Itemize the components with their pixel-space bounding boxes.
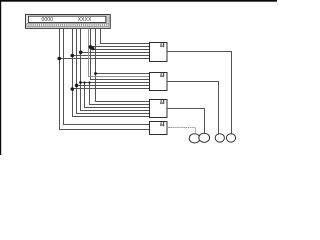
wire G1 pin5 horizontal — [73, 55, 150, 57]
wire s3: tap on G2p4 line down to G3 pin3 — [85, 83, 150, 108]
svg-text:XXXX: XXXX — [78, 17, 92, 23]
junction m7 / G1 pin2 — [89, 45, 93, 49]
wire G1 pin6 horizontal — [60, 58, 150, 60]
wire m7: generator, taps G1p2, ends at G2 pin3 — [91, 29, 150, 80]
wire G2 pin5 horizontal — [77, 85, 150, 87]
wire m9: generator to G1 pin1 — [101, 29, 150, 44]
junction m5 / G2 pin4 — [79, 81, 82, 84]
wire G2 pin6 horizontal — [73, 88, 150, 90]
indicator lamp X1 — [189, 134, 200, 143]
wire s2: tap on G2p4 line down to G3 pin2 — [90, 83, 150, 105]
wire m1: generator to G1p6 junction, ends at G4 pin2 — [60, 29, 150, 130]
word generator right pin column — [106, 16, 109, 23]
AND gate G3 (6-input IEC box) — [150, 100, 171, 118]
wire m2: generator to G4 pin1 — [64, 29, 150, 125]
wire m8: generator, taps G1p3 and G2p1, ends at G3 pin1 — [96, 29, 150, 102]
junction m4 / G2 pin5 — [75, 84, 79, 88]
wire m4: generator, taps G2p5, ends at G3 pin5 — [77, 29, 150, 114]
wire G1 output to lamp X4 — [167, 52, 232, 134]
wire G1 pin4 horizontal — [81, 52, 150, 54]
wire G4 output (gray) to lamp X1 — [167, 128, 196, 135]
word generator bottom pin strip — [26, 23, 109, 27]
junction m3 / G2 pin6 — [71, 87, 75, 91]
AND gate G4 (2-input IEC box) — [150, 122, 171, 135]
svg-text:0000: 0000 — [42, 17, 54, 23]
word generator outer body — [26, 15, 111, 29]
word generator display window — [28, 16, 105, 22]
frame top edge — [0, 0, 277, 2]
wire G2 output to lamp X3 — [167, 82, 219, 134]
indicator lamp X2 — [199, 133, 210, 142]
junction m8 / G2 pin1 — [94, 72, 97, 75]
junction dots — [58, 45, 97, 91]
junction m5 / G1 pin4 — [79, 51, 83, 55]
wire m3: generator, taps G1p5 and G2p6, ends at G3 pin6 — [73, 29, 150, 117]
wire m5: generator, taps G1p4 and G2p4, ends at G3 pin4 — [81, 29, 150, 111]
junction m1 / G1 pin6 — [58, 57, 62, 61]
junction pin3 blob — [91, 47, 94, 50]
wire m6 (gray): generator to G2 pin2 — [89, 29, 150, 77]
junction s3 / G2 pin4 — [83, 81, 85, 83]
junction s2 / G2 pin4 — [88, 81, 90, 83]
frame left edge — [0, 0, 1, 155]
wire G1 pin2 horizontal — [91, 46, 150, 48]
indicator lamp X3 — [215, 134, 224, 142]
AND gate G2 (6-input IEC box) — [150, 73, 171, 91]
AND gate G1 (6-input IEC box) — [150, 43, 171, 62]
wire G1 pin3 horizontal — [92, 49, 150, 51]
indicator lamp X4 — [226, 134, 235, 142]
junction m3 / G1 pin5 — [71, 54, 75, 58]
wire G2 pin1 horizontal — [96, 73, 150, 75]
wire G3 output to lamp X2 — [167, 109, 205, 134]
wire G2 pin4 horizontal — [81, 82, 150, 84]
